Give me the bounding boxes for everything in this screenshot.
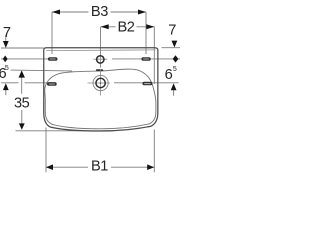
mounting slot lower-left — [47, 82, 57, 86]
B3 right arrow — [138, 10, 146, 15]
6.5 right shaft — [173, 90, 175, 96]
7 left shaft — [5, 35, 7, 41]
B2/B1 right ext — [153, 27, 155, 173]
B2 ext left / tap axis — [100, 27, 102, 68]
mounting slot upper-right — [141, 57, 150, 61]
6.5 top ref line — [11, 69, 72, 72]
B3 left arrow — [52, 10, 60, 15]
small tap hole — [97, 56, 104, 63]
6.5 left shaft — [5, 90, 7, 95]
B2 right arrow — [146, 24, 154, 29]
svg-text:35: 35 — [14, 96, 30, 112]
basin outer shell — [44, 48, 158, 131]
35 up arrow — [19, 70, 25, 77]
6.5 left up arrow — [3, 83, 9, 90]
7 left down arrow — [3, 41, 9, 48]
7 right diamond — [173, 55, 179, 62]
line4 (lower slots axis) — [1, 82, 178, 84]
B2 left arrow — [101, 24, 109, 29]
35 down arrow — [19, 123, 25, 129]
6.5 right up arrow — [171, 83, 177, 90]
35 shaft — [21, 77, 23, 123]
mounting slot lower-right — [142, 82, 152, 86]
svg-text:7: 7 — [168, 22, 176, 38]
B2 dim line — [101, 26, 155, 28]
35 bottom ref line — [16, 130, 109, 132]
B1 right arrow — [147, 164, 154, 170]
B1 dim line — [46, 166, 154, 168]
arrows — [3, 10, 179, 171]
7 left diamond — [3, 56, 8, 63]
svg-text:B2: B2 — [117, 20, 134, 36]
7 ref lines left — [1, 48, 49, 59]
B1 left arrow — [46, 164, 53, 170]
B3 ext lines — [52, 12, 146, 54]
mounting slot upper-left — [48, 57, 58, 61]
rim inner top line — [46, 49, 155, 52]
B3 dim line — [52, 11, 146, 13]
B1 left ext — [45, 128, 47, 173]
svg-text:B1: B1 — [91, 159, 108, 175]
bowl inner outline — [45, 69, 156, 129]
big tap hole — [93, 75, 108, 90]
svg-text:5: 5 — [173, 66, 177, 73]
svg-text:6: 6 — [165, 67, 173, 83]
overflow slot — [96, 69, 103, 71]
svg-text:7: 7 — [3, 25, 11, 41]
svg-text:5: 5 — [5, 65, 9, 72]
svg-text:B3: B3 — [91, 4, 108, 20]
line2 inside basin — [112, 58, 142, 60]
7 ref lines right — [151, 48, 180, 59]
7 right down arrow — [172, 41, 178, 48]
